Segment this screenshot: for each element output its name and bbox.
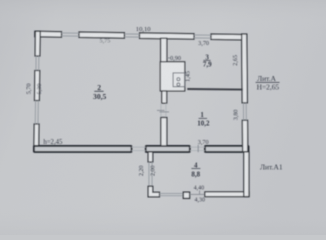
wall: north exterior wall segment 4 (Lit.A) bbox=[211, 34, 247, 40]
wall: west exterior wall segment 3 (Lit.A) bbox=[34, 124, 39, 149]
room 3 underline bbox=[203, 59, 210, 61]
wall: west exterior wall segment 1 (Lit.A) bbox=[35, 31, 40, 56]
room 2 underline bbox=[94, 90, 103, 92]
wall: east exterior wall segment 2 (Lit.A) bbox=[242, 120, 247, 152]
wall: south wall of main building segment 2 bbox=[146, 146, 190, 152]
wall: partition room2/room1 lower part bbox=[161, 118, 167, 146]
window: west wall of annex A1 bbox=[149, 162, 152, 186]
wall: partition above stove (room2/room3) bbox=[161, 38, 167, 62]
window: north wall window 3 bbox=[194, 35, 211, 38]
wall: south wall of annex A1 bbox=[205, 192, 249, 197]
wall: south-west corner of annex A1 bbox=[148, 186, 159, 197]
stove burner circle 2 bbox=[177, 83, 180, 86]
window: east wall window bbox=[243, 103, 246, 120]
door opening: south wall doorway 1 bbox=[132, 147, 146, 150]
window: north wall window 1 bbox=[62, 33, 80, 36]
wall: west wall stub of annex A1 bbox=[148, 152, 153, 162]
label Lit.A underline bbox=[256, 81, 280, 83]
wall: partition between room 3 and room 1 bbox=[187, 88, 243, 91]
stove burner circle 1 bbox=[177, 78, 180, 81]
wall: stub below stove bbox=[162, 91, 167, 103]
post: small square pillar on south side bbox=[183, 192, 189, 198]
stove: brick stove outline bbox=[160, 62, 185, 91]
window: north wall window 2 bbox=[124, 34, 139, 37]
wall: north exterior wall segment 1 (Lit.A) bbox=[35, 31, 62, 37]
door opening: dashed opening in partition bbox=[161, 103, 166, 117]
wall: north exterior wall segment 2 (Lit.A) bbox=[79, 32, 124, 38]
wall: south wall of main building segment 3 bbox=[205, 146, 249, 152]
dimension tick: 3,70 south doorway bbox=[197, 145, 199, 152]
dimension tick: 0,90 left tick bbox=[167, 57, 170, 59]
stove firebox rectangle bbox=[173, 73, 185, 87]
wall: south wall of main building segment 1 bbox=[34, 146, 132, 152]
window: west wall window 2 bbox=[35, 101, 38, 125]
door opening: south wall doorway 2 bbox=[190, 147, 205, 150]
room 1 underline bbox=[199, 117, 207, 119]
room 4 underline bbox=[191, 168, 200, 170]
dimension line: 4,40 / 4,30 with tick bbox=[190, 193, 205, 195]
wall: north exterior wall segment 3 (Lit.A) bbox=[140, 33, 195, 39]
scan grain bbox=[0, 0, 1, 1]
wall: east exterior wall segment 1 (Lit.A) bbox=[242, 34, 248, 103]
window: west wall window 1 bbox=[36, 56, 39, 71]
wall: west exterior wall segment 2 (Lit.A) bbox=[35, 71, 40, 101]
wall: east wall of annex A1 bbox=[244, 152, 249, 197]
porch line: thin south line of porch bbox=[160, 193, 184, 195]
